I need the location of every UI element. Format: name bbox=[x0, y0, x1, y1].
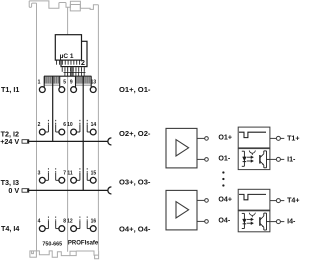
svg-text:2: 2 bbox=[81, 60, 85, 67]
svg-text:O1-: O1- bbox=[218, 155, 230, 163]
svg-text:12: 12 bbox=[67, 219, 73, 225]
svg-text:O1+, O1-: O1+, O1- bbox=[119, 85, 151, 94]
svg-text:3: 3 bbox=[38, 170, 41, 176]
svg-text:5: 5 bbox=[63, 80, 66, 86]
svg-text:16: 16 bbox=[91, 219, 97, 225]
svg-text:O4+, O4-: O4+, O4- bbox=[119, 225, 151, 234]
svg-text:T4, I4: T4, I4 bbox=[1, 224, 19, 233]
svg-text:14: 14 bbox=[91, 122, 97, 128]
svg-text:µC 1: µC 1 bbox=[60, 53, 74, 60]
svg-text:8: 8 bbox=[63, 219, 66, 225]
svg-text:11: 11 bbox=[67, 170, 73, 176]
svg-text:10: 10 bbox=[67, 122, 73, 128]
svg-text:T1, I1: T1, I1 bbox=[1, 85, 19, 94]
svg-text:O4-: O4- bbox=[218, 217, 230, 225]
svg-text:O2+, O2-: O2+, O2- bbox=[119, 129, 151, 138]
svg-text:7: 7 bbox=[63, 170, 66, 176]
svg-text:6: 6 bbox=[63, 122, 66, 128]
svg-text:9: 9 bbox=[70, 80, 73, 86]
svg-text:O4+: O4+ bbox=[218, 196, 232, 204]
svg-text:1: 1 bbox=[38, 80, 41, 86]
svg-text:750-665: 750-665 bbox=[42, 241, 62, 247]
svg-text:4: 4 bbox=[38, 219, 41, 225]
svg-text:+24 V: +24 V bbox=[0, 137, 19, 146]
svg-text:T1+: T1+ bbox=[287, 134, 299, 142]
svg-text:13: 13 bbox=[91, 80, 97, 86]
svg-text:O3+, O3-: O3+, O3- bbox=[119, 177, 151, 186]
svg-text:0 V: 0 V bbox=[8, 186, 19, 195]
svg-text:PROFIsafe: PROFIsafe bbox=[68, 240, 99, 246]
svg-text:15: 15 bbox=[91, 170, 97, 176]
svg-text:T4+: T4+ bbox=[287, 196, 299, 204]
svg-text:O1+: O1+ bbox=[218, 134, 232, 142]
svg-text:I1-: I1- bbox=[287, 155, 296, 163]
svg-text:I4-: I4- bbox=[287, 217, 296, 225]
svg-text:2: 2 bbox=[38, 122, 41, 128]
